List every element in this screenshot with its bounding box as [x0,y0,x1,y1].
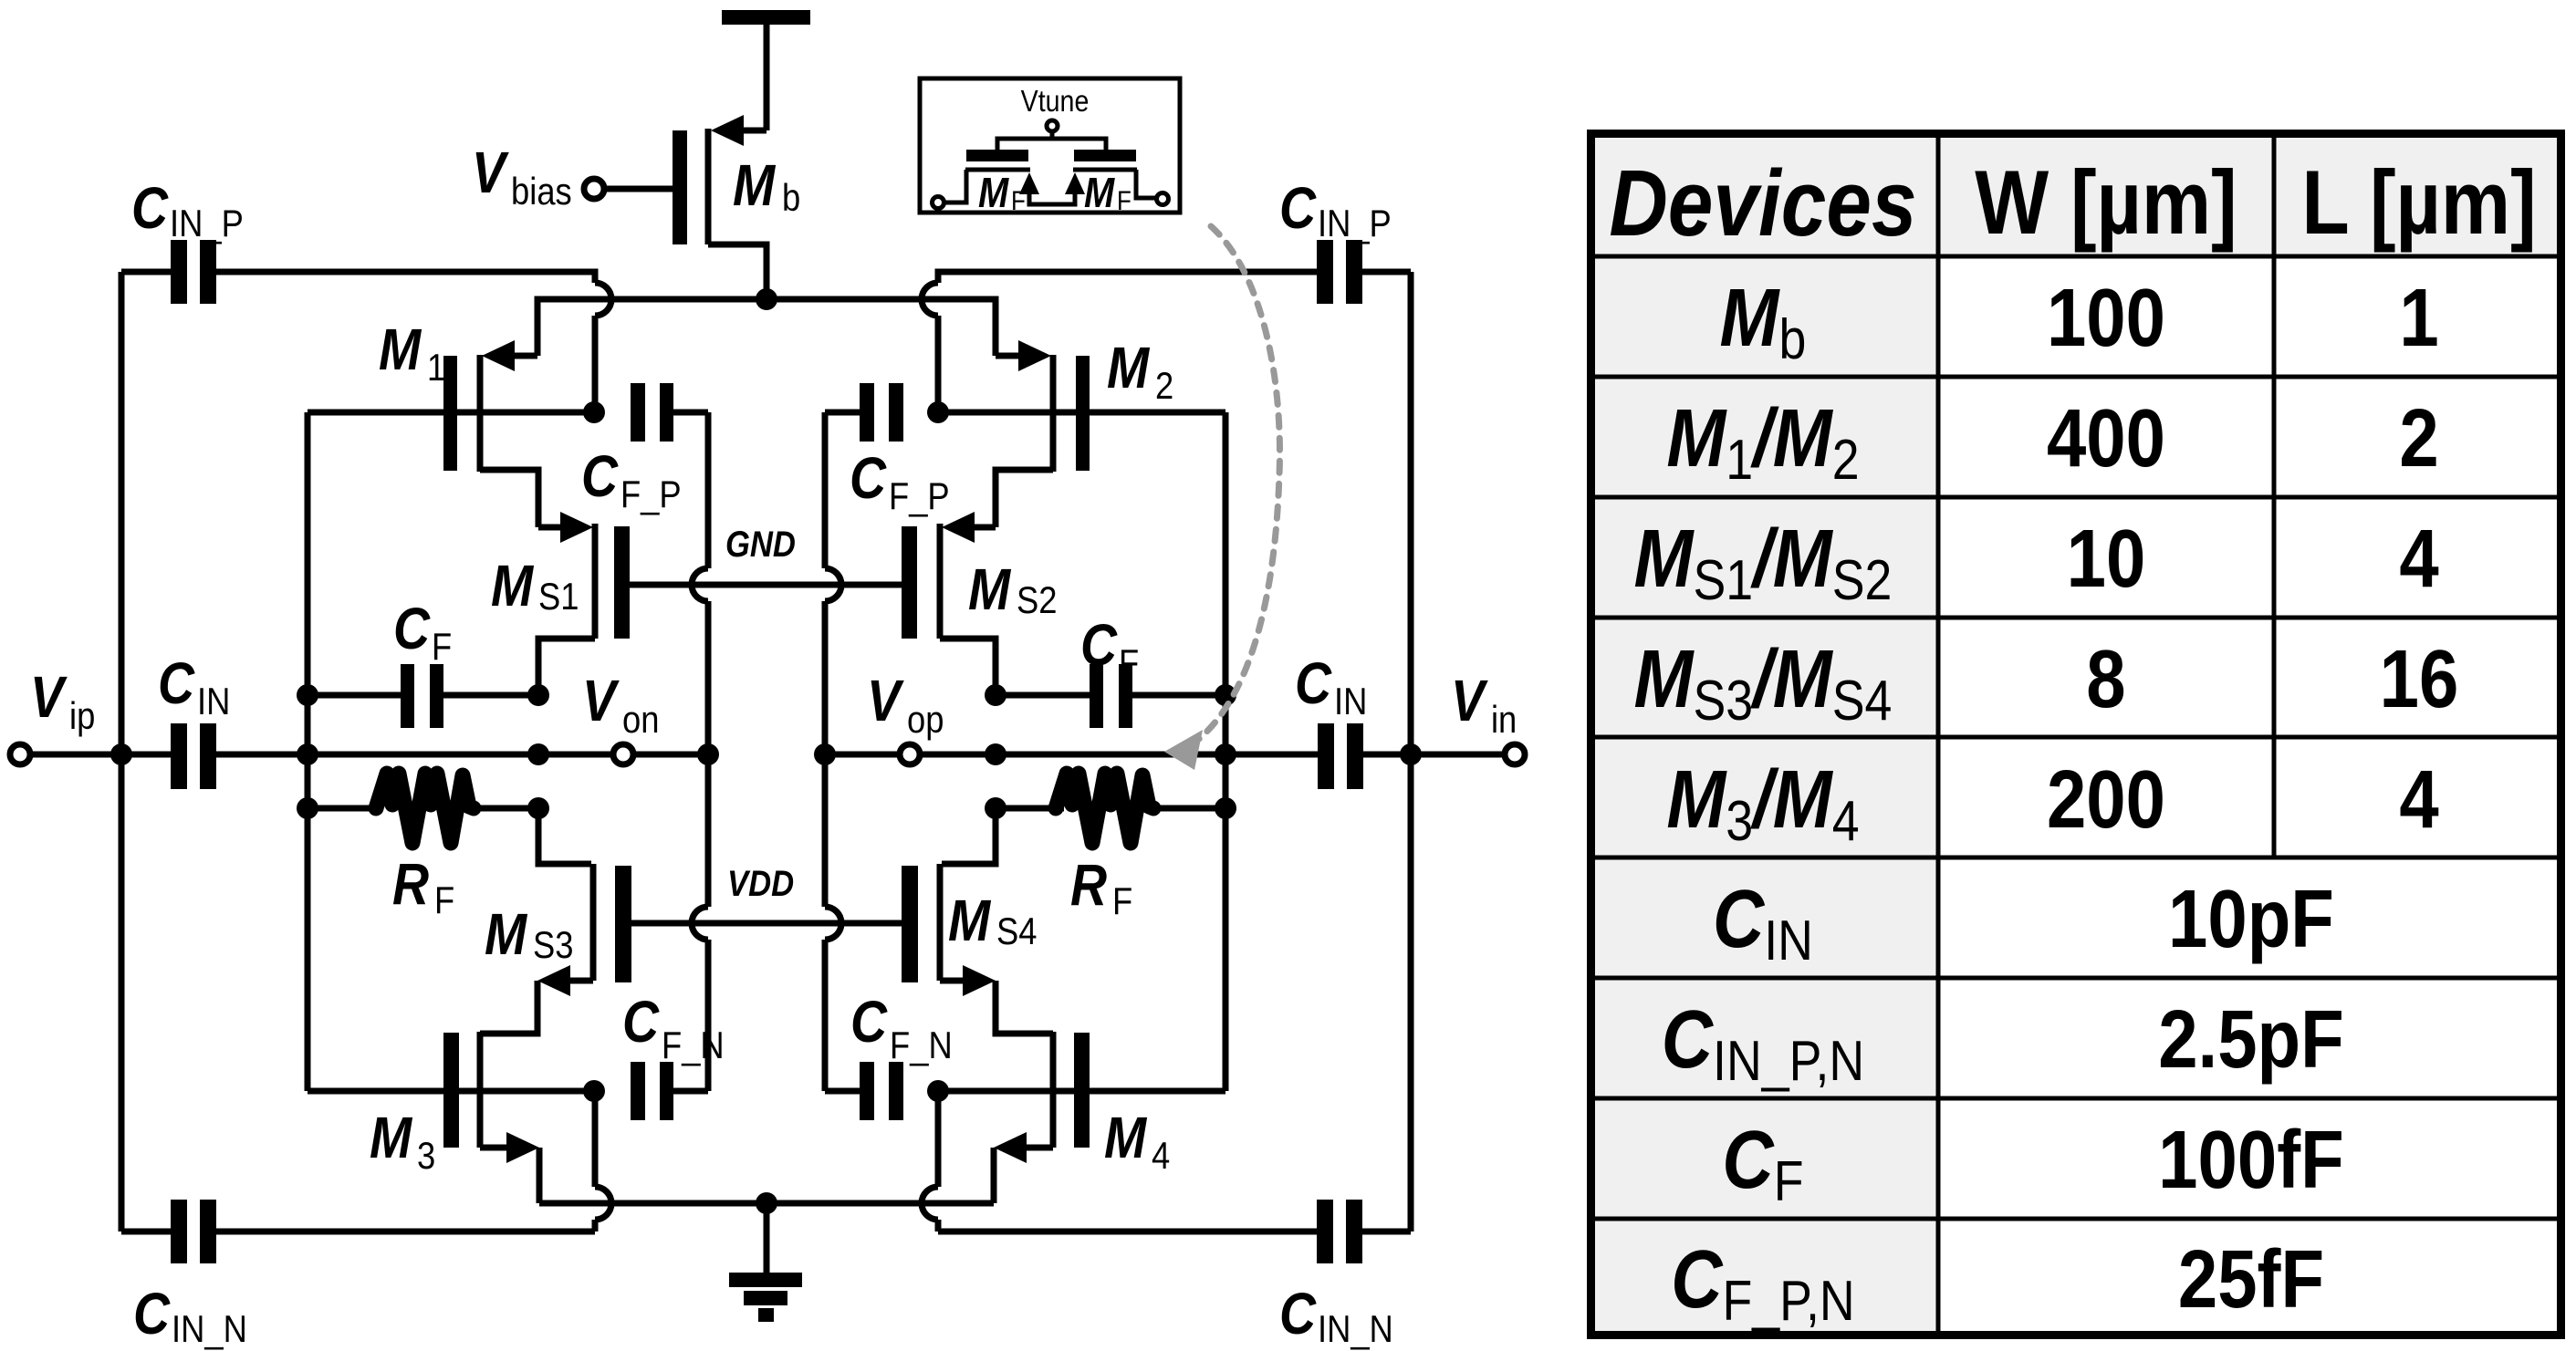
capacitor CF_N (right) [825,1062,903,1120]
wire MS1 drain column down to MS3 [538,808,591,864]
svg-text:op: op [907,699,944,742]
capacitor CF_P (left) [631,383,708,442]
svg-text:8: 8 [2086,633,2125,724]
svg-text:S4: S4 [996,910,1037,953]
VDD net line between MS3/MS4 gates [631,920,902,927]
svg-text:M: M [1107,335,1150,400]
wire CIN_N left vertical with hop over bottom rail [595,1091,611,1231]
label CIN_N (left) [133,1281,247,1350]
label CF (left) [393,596,452,668]
label CIN (right) [1295,650,1367,722]
node CF_N left junction [583,1080,605,1102]
label Vop [867,668,944,741]
svg-text:M: M [978,170,1009,216]
svg-text:V: V [30,664,68,730]
svg-text:F: F [1119,642,1139,685]
svg-text:10: 10 [2067,513,2146,604]
svg-text:4: 4 [2399,513,2439,604]
svg-text:C: C [133,1281,171,1346]
label MS1 [491,553,579,618]
svg-text:M: M [733,152,776,218]
bottom source rail (M3/M4 sources) [539,1200,994,1207]
label Vbias [472,140,572,213]
Vbias terminal [584,179,673,199]
svg-text:M: M [948,888,991,953]
svg-text:S1: S1 [538,576,579,618]
label M4 [1104,1105,1170,1177]
table row CIN_P,N [1662,993,2344,1093]
VDD supply bar (top) [722,10,810,130]
svg-text:W [µm]: W [µm] [1975,151,2237,253]
svg-text:200: 200 [2047,753,2165,845]
svg-text:L [µm]: L [µm] [2301,151,2536,253]
svg-text:VDD: VDD [727,863,794,904]
label CF (right) [1080,612,1139,684]
svg-text:2: 2 [2399,392,2438,483]
table header row [1609,151,2536,255]
svg-text:C: C [158,650,195,716]
svg-text:IN_P: IN_P [1318,203,1392,245]
node CF_P left junction [583,401,605,423]
capacitor CIN (right) [1318,723,1411,789]
wire MS2 drain column down to MS4 [942,808,996,864]
svg-text:on: on [622,699,659,742]
label CF_N (right) [850,989,953,1066]
svg-text:1: 1 [2399,272,2438,363]
label MF (right) [1084,170,1132,216]
svg-text:M: M [1084,170,1115,216]
label CIN_P (right) [1279,175,1392,244]
node CF_P right junction [927,401,949,423]
label M1 [379,317,445,389]
resistor RF (left) [308,774,538,843]
node dots on right main line [814,743,1422,765]
table row Mb [1720,272,2439,371]
label RF (left) [392,851,454,921]
capacitor CF_P (right) [825,383,903,442]
svg-text:16: 16 [2380,633,2459,724]
wire Vop node line [825,752,996,758]
label Vip [30,664,95,737]
wire CIN_P left lead [121,269,171,275]
label MS3 [485,901,573,967]
wire long vertical right (CF_P left plate to Vop node to CF_N) with hops over GND and VDD lines [825,412,841,1091]
label Von [582,668,659,741]
transistor M3 (NMOS) [308,1032,594,1203]
svg-text:M: M [968,556,1011,622]
svg-text:C: C [1080,612,1118,678]
Vtune varactor box [920,78,1180,213]
transistor MF (right varactor) [1065,150,1156,198]
svg-text:V: V [1451,668,1489,733]
capacitor CIN_P (right) [1317,240,1362,304]
capacitor CF_N (left) [631,1062,708,1120]
terminal right varactor (small circle) [1157,193,1169,205]
table row CF [1722,1114,2343,1213]
label CF_N (left) [622,989,725,1066]
capacitor CF (left) [308,664,538,728]
svg-text:F_P: F_P [889,475,950,518]
ground symbol [729,1203,802,1322]
svg-text:M: M [379,317,422,382]
terminal left varactor (small circle) [933,197,944,209]
label MS4 [948,888,1037,953]
transistor MF (left varactor) [944,150,1075,204]
transistor M2 (PMOS) [939,340,1225,527]
svg-text:bias: bias [511,171,572,213]
table outer border [1591,134,2561,1335]
label RF (right) [1070,852,1132,922]
label MS2 [968,556,1057,622]
table row CIN [1713,873,2334,972]
node CF_N right junction [927,1080,949,1102]
resistor RF (right) [996,774,1225,843]
wire left input column vertical (x=337, M1 gate to M3 gate) [305,412,311,1091]
terminal Vin [1411,744,1525,764]
table row MS1/MS2 [1634,513,2439,612]
svg-text:F_P: F_P [621,473,682,516]
svg-text:C: C [1279,175,1317,241]
table row CF_P,N [1671,1233,2324,1333]
wire right outer vertical (Vin column) [1408,272,1414,1231]
svg-text:C: C [850,445,887,511]
svg-text:R: R [392,851,429,917]
terminal Vtune (small circle) [1047,120,1058,139]
wire Vop to Vin line [996,752,1318,758]
svg-text:ip: ip [69,695,95,738]
svg-text:100fF: 100fF [2158,1114,2344,1205]
svg-text:S3: S3 [533,924,573,967]
wire Von circle to CF_P/CF_N column [633,752,708,758]
node CF left dots [297,684,549,706]
svg-text:M: M [485,901,527,967]
wire left outer vertical (Vip column) [119,272,125,1231]
wire CIN_N right vertical with hop over bottom rail [922,1091,938,1231]
label CIN_N (right) [1279,1281,1393,1350]
svg-text:V: V [472,140,510,205]
svg-text:C: C [850,989,888,1055]
wire long vertical left (CF_P right plate to Von node to CF_N) with hops over GND and VDD lines [692,412,708,1091]
svg-text:V: V [867,668,905,733]
node RF left dots [297,797,549,819]
svg-text:IN: IN [197,681,230,723]
wire Vip node line to Von [308,752,613,758]
dashed pointer arrow from varactor box to RF (right) [1164,226,1279,770]
svg-text:F: F [434,879,454,922]
svg-text:F_N: F_N [662,1024,725,1067]
svg-text:V: V [582,668,621,733]
svg-text:b: b [782,177,800,220]
transistor MS4 (switch) [902,864,1053,1034]
capacitor CIN_N (left) [121,1200,595,1263]
GND net line between MS1/MS2 gates [630,582,902,588]
label Mb [733,152,800,219]
svg-text:C: C [131,175,169,241]
node CF right dots [985,684,1236,706]
capacitor CIN_P (left) [171,240,216,304]
svg-text:Devices: Devices [1609,151,1916,255]
wire Vtune gate tee [997,139,1106,150]
wire CIN_P right-side leads with hop over tail rail [922,272,1411,412]
label MF (left) [978,170,1026,216]
transistor MS3 (switch) [480,864,631,1034]
svg-text:IN_N: IN_N [172,1308,247,1351]
label CIN_P (left) [131,175,244,244]
svg-text:GND: GND [725,524,796,565]
svg-text:100: 100 [2047,272,2165,363]
table grid lines [1588,130,2564,1338]
table row M3/M4 [1666,753,2438,853]
svg-text:10pF: 10pF [2168,873,2334,964]
label CIN (left) [158,650,230,722]
svg-text:in: in [1491,699,1517,742]
wire CIN_P right to hop over tail rail, down to CF_P node [216,272,611,412]
svg-text:400: 400 [2047,392,2165,483]
svg-text:F: F [1112,880,1132,923]
terminal Von (open circle) [613,744,633,764]
node dots on left main line [110,743,549,765]
transistor MS2 (switch) [902,512,996,695]
svg-text:M3/M4: M3/M4 [1666,753,1859,853]
transistor M4 (NMOS) [939,1032,1225,1203]
table background [1588,130,2564,1338]
node dot Von column [697,743,719,765]
terminal Vip [10,744,121,764]
terminal Vop (open circle) [900,744,920,764]
label CF_P (left) [581,443,682,515]
svg-text:1: 1 [427,347,445,390]
svg-text:R: R [1070,852,1107,918]
label M3 [370,1105,435,1177]
svg-text:IN: IN [1334,681,1367,723]
svg-text:C: C [1295,650,1332,716]
svg-text:IN_P: IN_P [170,203,244,245]
label CF_P (right) [850,445,950,517]
svg-text:2: 2 [1155,365,1173,408]
svg-text:M: M [1104,1105,1147,1170]
label M2 [1107,335,1173,407]
svg-text:F_N: F_N [890,1024,953,1067]
svg-text:C: C [622,989,660,1055]
capacitor CIN (left) [121,723,308,789]
capacitor CF (right) [996,664,1225,728]
wire right column vertical (x=1343, M2 gate to M4 gate) [1223,412,1229,1091]
node: tail junction dot [756,288,777,310]
svg-text:S2: S2 [1017,579,1057,622]
svg-text:C: C [1279,1281,1317,1346]
transistor Mb (PMOS bias) [673,115,767,299]
svg-text:C: C [393,596,431,661]
svg-text:M: M [491,553,534,618]
svg-text:25fF: 25fF [2178,1233,2324,1325]
label Vin [1451,668,1517,741]
svg-text:F: F [1117,185,1132,215]
transistor M1 (PMOS) [308,340,594,527]
svg-text:4: 4 [1152,1135,1170,1178]
svg-text:F: F [1011,185,1026,215]
table row M1/M2 [1666,392,2438,492]
svg-text:C: C [581,443,619,509]
transistor MS1 (switch) [538,512,630,695]
svg-text:2.5pF: 2.5pF [2158,993,2344,1085]
node RF right dots [985,797,1236,819]
svg-text:IN_N: IN_N [1318,1308,1393,1351]
svg-text:4: 4 [2399,753,2439,845]
node bottom rail dot [756,1192,777,1214]
svg-text:M1/M2: M1/M2 [1666,392,1859,492]
capacitor CIN_N (right) [938,1200,1411,1263]
svg-text:F: F [432,626,452,669]
table row MS3/MS4 [1634,633,2459,733]
svg-text:3: 3 [417,1135,435,1178]
svg-text:M: M [370,1105,412,1170]
svg-text:Vtune: Vtune [1021,84,1090,118]
tail rail (Mb drain node) [537,299,996,356]
